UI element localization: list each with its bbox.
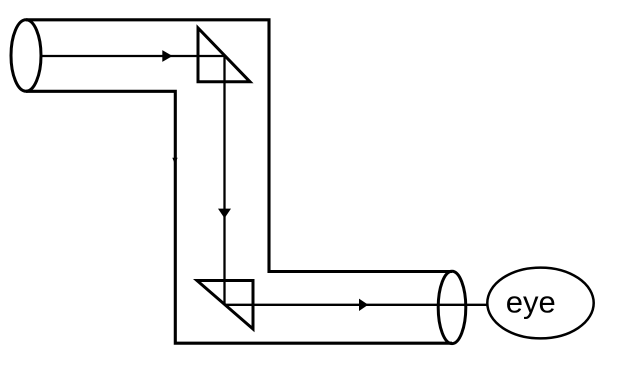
prism P1 (top right-angle prism) [198, 28, 250, 82]
wire: periscope tube upper wall (top edge, right vertical, lower horizontal) [26, 20, 452, 272]
wire: periscope tube lower wall (bottom edge, left vertical, bottom horizontal) [26, 91, 452, 343]
wire: light ray 2 vertical (down the tube) [223, 56, 225, 305]
node: arrowhead on ray 1 [162, 50, 172, 62]
node: eye ellipse [487, 268, 593, 339]
node: eyepiece opening ellipse (right tube end) [438, 271, 466, 343]
node: objective opening ellipse (left tube end) [11, 20, 41, 91]
prism P2 (bottom right-angle prism) [197, 281, 253, 330]
node: arrowhead on ray 3 [359, 299, 368, 311]
wire: light ray 3 horizontal (to the eye) [225, 304, 488, 306]
svg-text:eye: eye [506, 285, 556, 320]
node: small arrowhead mark on tube left wall [172, 158, 177, 164]
node: arrowhead on ray 2 [218, 209, 231, 219]
wire: light ray 1 horizontal (into objective) [41, 55, 225, 57]
